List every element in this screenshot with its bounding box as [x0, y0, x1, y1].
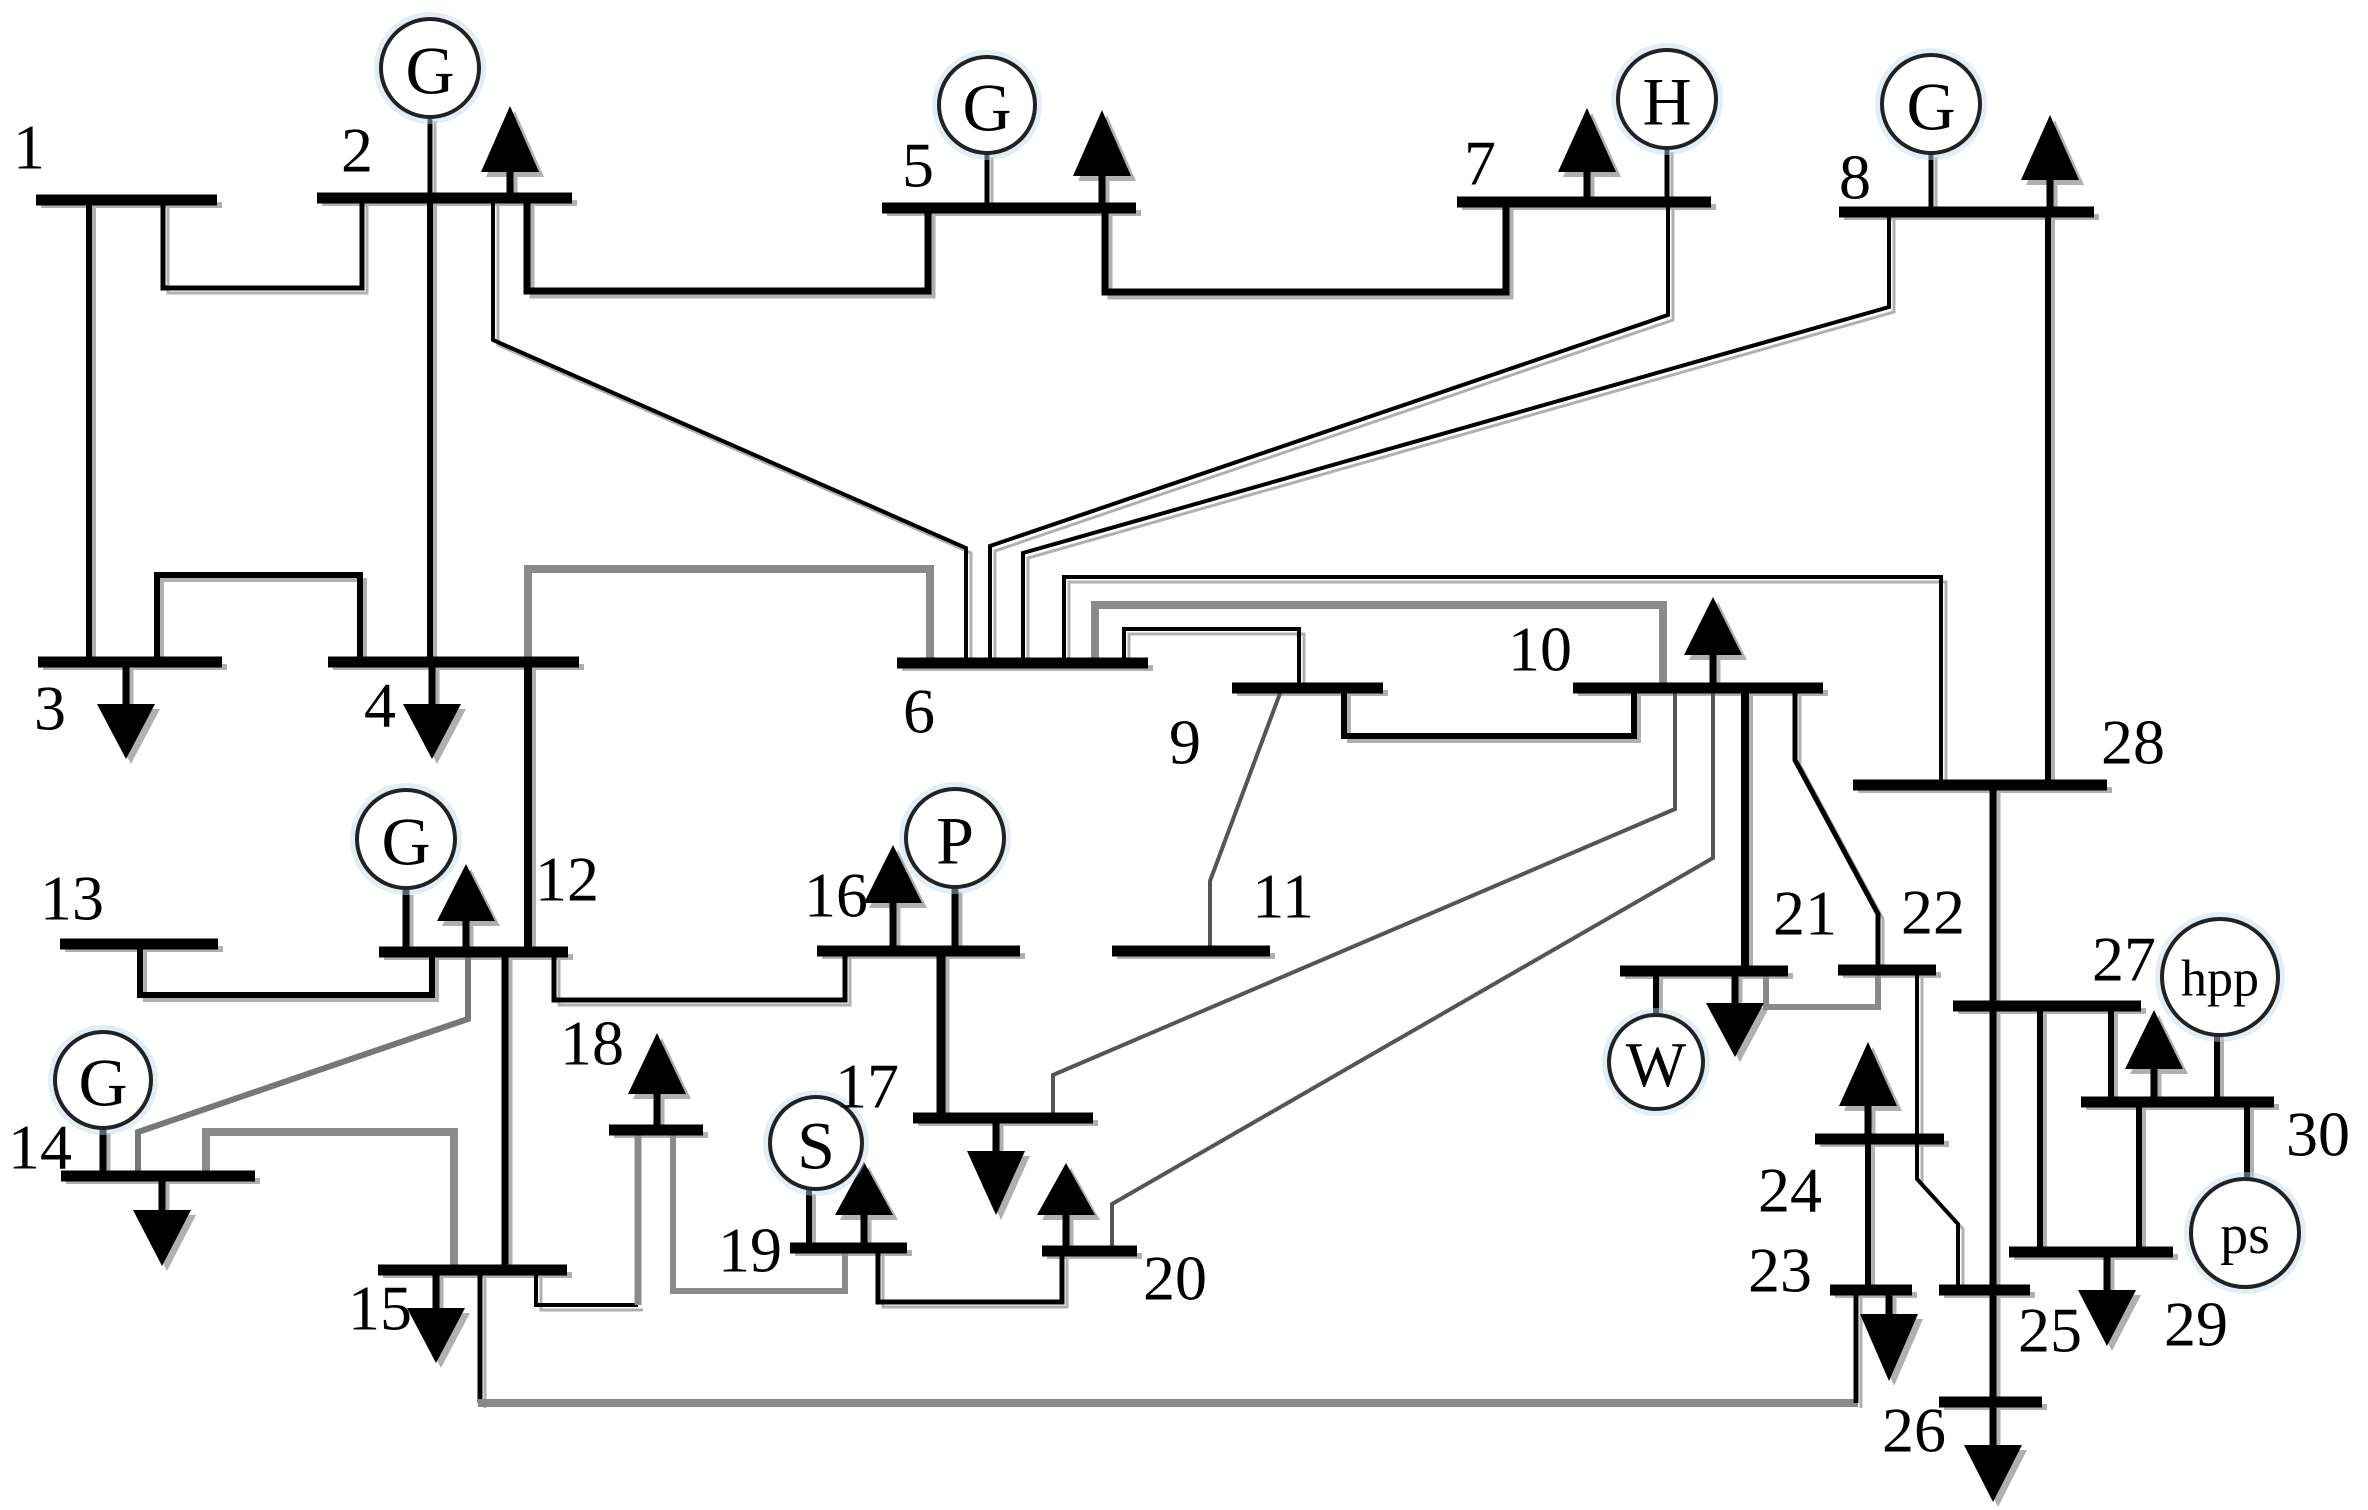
svg-text:7: 7 [1464, 128, 1496, 199]
svg-text:19: 19 [718, 1215, 782, 1286]
svg-text:H: H [1642, 64, 1691, 140]
svg-text:30: 30 [2286, 1099, 2350, 1170]
svg-text:4: 4 [364, 670, 396, 741]
svg-text:S: S [797, 1108, 835, 1184]
svg-text:G: G [962, 70, 1011, 146]
svg-text:29: 29 [2164, 1289, 2228, 1360]
svg-text:6: 6 [903, 676, 935, 747]
svg-text:25: 25 [2018, 1295, 2082, 1366]
svg-text:2: 2 [341, 115, 373, 186]
svg-text:21: 21 [1773, 878, 1837, 949]
svg-text:10: 10 [1508, 614, 1572, 685]
svg-text:20: 20 [1143, 1243, 1207, 1314]
svg-text:27: 27 [2092, 924, 2156, 995]
svg-text:W: W [1626, 1029, 1687, 1100]
svg-text:23: 23 [1748, 1235, 1812, 1306]
svg-text:12: 12 [535, 844, 599, 915]
svg-text:G: G [381, 804, 430, 880]
svg-text:15: 15 [348, 1273, 412, 1344]
svg-text:18: 18 [560, 1008, 624, 1079]
svg-text:22: 22 [1901, 877, 1965, 948]
svg-text:13: 13 [40, 863, 104, 934]
svg-text:G: G [1906, 69, 1955, 145]
svg-text:G: G [405, 33, 454, 109]
svg-text:14: 14 [8, 1112, 72, 1183]
svg-text:8: 8 [1839, 142, 1871, 213]
svg-text:28: 28 [2101, 707, 2165, 778]
svg-text:1: 1 [13, 112, 45, 183]
svg-text:ps: ps [2220, 1204, 2270, 1266]
svg-text:16: 16 [804, 860, 868, 931]
svg-text:hpp: hpp [2181, 951, 2259, 1008]
svg-text:9: 9 [1169, 707, 1201, 778]
svg-text:3: 3 [34, 673, 66, 744]
svg-text:24: 24 [1758, 1155, 1822, 1226]
svg-text:5: 5 [902, 130, 934, 201]
svg-text:11: 11 [1252, 861, 1314, 932]
svg-text:17: 17 [835, 1051, 899, 1122]
svg-text:26: 26 [1882, 1395, 1946, 1466]
svg-text:P: P [936, 803, 974, 879]
svg-text:G: G [78, 1045, 127, 1121]
